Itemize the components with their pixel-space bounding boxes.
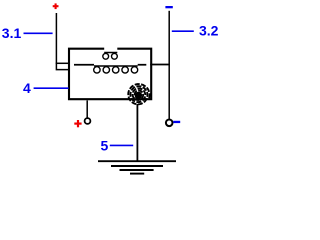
wire: upper stub to housing: [56, 62, 69, 64]
leader line 5: [110, 144, 133, 146]
minus label at breaker: [173, 121, 180, 123]
high-voltage electrode swirl: [128, 84, 149, 104]
wire: right vertical (negative line): [168, 11, 170, 119]
svg-text:3.2: 3.2: [199, 22, 219, 38]
primary winding W1 line through housing: [74, 64, 170, 66]
svg-text:3.1: 3.1: [2, 25, 22, 41]
terminal - (top right): [165, 6, 172, 8]
leader line 4: [34, 87, 69, 89]
wire: below housing to + breaker terminal: [86, 100, 88, 118]
breaker terminal circle (right, -): [166, 120, 173, 127]
wire: positive feed vertical: [56, 13, 68, 70]
primary winding W1 loops: [94, 67, 138, 73]
breaker terminal circle (left, +): [85, 118, 91, 124]
primary winding bridge over loops: [94, 65, 138, 67]
wire: electrode to ground: [136, 104, 138, 161]
svg-text:5: 5: [101, 138, 109, 154]
secondary winding W2 (two loops on top edge): [103, 53, 118, 59]
ground symbol: [98, 161, 176, 173]
plus label at breaker (red): [74, 120, 81, 127]
svg-text:4: 4: [23, 80, 31, 96]
coil housing box: [69, 49, 151, 99]
leader line 3.2: [172, 30, 194, 32]
leader line 3.1: [24, 32, 53, 34]
terminal + (battery positive, top left): [53, 3, 59, 9]
secondary winding bridge on top edge: [104, 52, 117, 54]
